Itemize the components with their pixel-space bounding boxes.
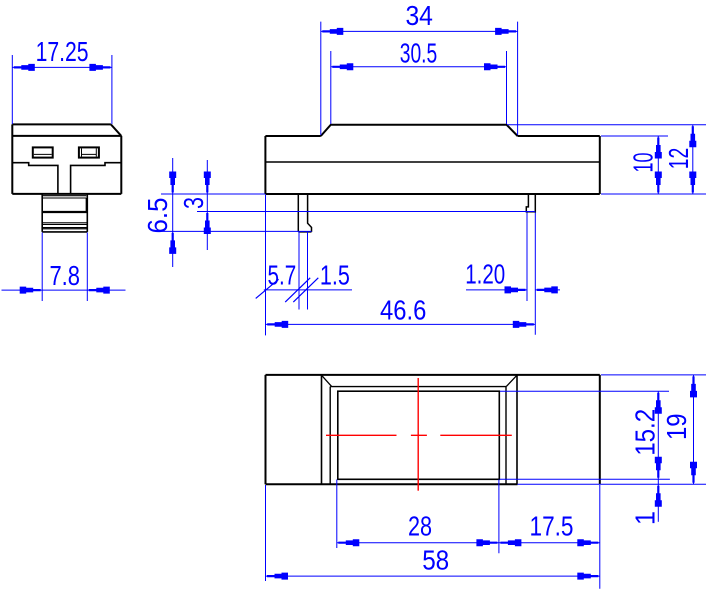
svg-text:6.5: 6.5 <box>142 198 173 234</box>
svg-text:5.7: 5.7 <box>268 260 297 291</box>
svg-text:7.8: 7.8 <box>49 260 80 291</box>
svg-text:19: 19 <box>661 414 692 441</box>
dimension 3 <box>178 160 535 250</box>
bottom view body <box>266 375 600 484</box>
dimension 34 <box>321 0 518 135</box>
dimension 1 <box>630 479 662 525</box>
svg-text:1.20: 1.20 <box>465 259 505 290</box>
dimension 7.8 <box>2 233 126 302</box>
dimension 12 <box>507 125 706 194</box>
front view body outline <box>12 124 121 193</box>
front view step parting lines <box>12 163 121 194</box>
dimension 10 <box>601 136 668 194</box>
dimension 15.2 <box>500 391 670 479</box>
front view right slot <box>79 147 99 157</box>
svg-text:46.6: 46.6 <box>380 295 426 326</box>
svg-text:17.5: 17.5 <box>530 510 574 541</box>
side view right leg <box>526 194 535 212</box>
svg-text:1: 1 <box>630 511 661 525</box>
svg-text:58: 58 <box>422 544 449 575</box>
svg-text:28: 28 <box>408 510 432 541</box>
svg-text:34: 34 <box>405 0 433 31</box>
svg-text:3: 3 <box>178 197 209 209</box>
dimension 17.25 <box>12 36 112 124</box>
dimension 5.7 and 1.5 with oblique ticks <box>256 232 352 310</box>
svg-text:1.5: 1.5 <box>320 260 350 291</box>
dimension 17.5 <box>499 510 600 546</box>
side view body <box>265 136 599 194</box>
front view bottom stem <box>42 194 87 232</box>
dimension 30.5 <box>331 38 507 125</box>
svg-text:15.2: 15.2 <box>630 409 661 456</box>
svg-text:30.5: 30.5 <box>400 38 438 69</box>
dimension 58 <box>266 485 600 589</box>
red centerline vertical <box>417 378 419 491</box>
bottom view outer frame <box>322 375 518 484</box>
dimension 28 <box>337 480 499 554</box>
dimension 46.6 <box>266 195 536 336</box>
dimension 19 <box>518 375 707 484</box>
svg-text:17.25: 17.25 <box>36 36 89 67</box>
dimension 1.20 <box>465 213 560 335</box>
bottom view window <box>338 391 500 479</box>
red centerline horizontal <box>326 434 512 436</box>
side view top flange <box>321 125 518 136</box>
side view left leg <box>298 194 311 232</box>
svg-text:12: 12 <box>663 148 694 170</box>
front view left slot <box>33 147 53 157</box>
bottom view mid frame <box>330 387 506 485</box>
dimension 6.5 <box>142 158 312 267</box>
svg-text:10: 10 <box>628 153 659 173</box>
